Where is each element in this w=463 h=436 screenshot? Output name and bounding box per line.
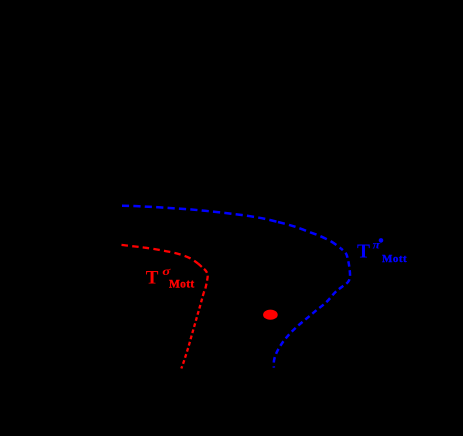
svg-text:Mott: Mott (169, 279, 194, 291)
svg-text:T: T (146, 267, 159, 288)
svg-text:T: T (357, 242, 370, 263)
svg-text:σ: σ (162, 264, 171, 278)
svg-text:Mott: Mott (382, 253, 407, 265)
